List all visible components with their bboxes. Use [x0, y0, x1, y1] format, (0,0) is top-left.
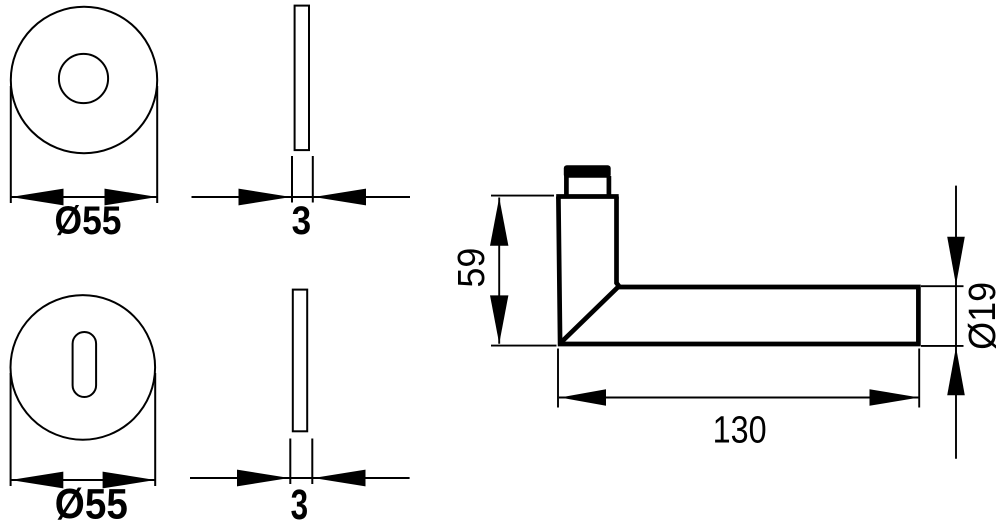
rosette front view top: inner hole	[59, 54, 108, 103]
arrowhead pointing left at top plate	[314, 189, 366, 206]
rosette front view top: outer circle	[11, 7, 157, 153]
arrowhead right Ø55 top	[105, 189, 158, 206]
arrowhead pointing right at bottom plate	[237, 470, 289, 487]
extension line right of 130	[918, 349, 920, 408]
extension line left of top rosette	[10, 86, 12, 203]
dimension line 3 bottom	[190, 477, 410, 479]
extension line bottom of Ø19	[921, 345, 964, 347]
elbow crease	[561, 286, 619, 343]
spindle cap	[564, 165, 611, 178]
svg-text:59: 59	[451, 248, 493, 288]
rosette front view bottom: outer circle	[11, 295, 156, 440]
svg-text:Ø55: Ø55	[55, 480, 128, 520]
svg-text:Ø19: Ø19	[962, 282, 1000, 350]
collar right side	[607, 176, 612, 197]
dimension line Ø55 top	[11, 196, 157, 198]
arrowhead up 59	[490, 198, 508, 246]
extension line left of bottom rosette	[10, 373, 12, 486]
lever handle outline	[558, 197, 918, 345]
arrowhead left Ø55 bottom	[11, 472, 64, 489]
arrowhead right Ø55 bottom	[103, 472, 156, 489]
collar left side	[564, 176, 569, 197]
handle neck shoulder	[556, 194, 619, 199]
dimension line 59	[498, 198, 500, 344]
svg-text:Ø55: Ø55	[55, 199, 122, 243]
extension line left of 130	[557, 349, 559, 408]
dimension line Ø55 bottom	[11, 479, 156, 481]
arrowhead left Ø55 top	[11, 189, 64, 206]
arrowhead up Ø19	[947, 347, 965, 395]
arrowhead pointing left at bottom plate	[313, 470, 365, 487]
arrowhead down 59	[490, 295, 508, 343]
dimension line 130	[559, 397, 920, 399]
extension line left of bottom plate	[289, 439, 291, 485]
side view plate bottom	[293, 290, 307, 432]
svg-text:3: 3	[292, 199, 312, 243]
svg-text:130: 130	[713, 410, 767, 452]
extension line right of top rosette	[156, 86, 158, 203]
arrowhead pointing right at top plate	[239, 189, 292, 206]
extension line left of top plate	[291, 156, 293, 203]
dimension line 3 top	[192, 196, 411, 198]
extension line bottom of 59	[491, 345, 557, 347]
extension line right of bottom plate	[311, 439, 313, 485]
extension line right of bottom rosette	[154, 373, 156, 486]
dimension line Ø19	[955, 186, 957, 459]
arrowhead left 130	[560, 389, 606, 405]
extension line top of 59	[491, 195, 554, 197]
extension line top of Ø19	[921, 285, 964, 287]
extension line right of top plate	[312, 156, 314, 203]
keyhole slot	[73, 332, 97, 397]
side view plate top	[295, 6, 309, 151]
arrowhead down Ø19	[947, 237, 965, 285]
svg-text:3: 3	[291, 481, 309, 520]
arrowhead right 130	[870, 389, 920, 405]
